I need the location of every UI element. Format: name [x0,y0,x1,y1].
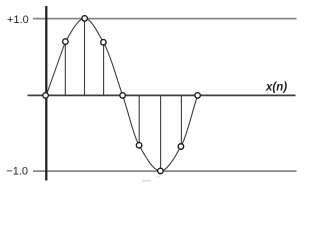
svg-text:−1.0: −1.0 [6,166,28,178]
stem sample n=5 [138,95,140,145]
+1.0 reference line [33,18,297,20]
svg-text:x(n): x(n) [265,82,287,94]
sample point circle n=5 [136,143,142,149]
sample point circle n=6 (trough -1) [158,168,164,174]
sample point circle n=2 (peak +1) [82,16,88,22]
sine envelope curve [46,18,197,171]
sample point circle n=7 [178,144,184,150]
stem sample n=7 [180,95,182,146]
sample point circle n=3 [101,40,107,46]
sample point circle n=0 (zero) [43,93,49,99]
sample point circle n=1 [63,39,69,45]
stem sample n=2 [84,18,86,95]
svg-text:+1.0: +1.0 [7,14,29,26]
sample point circle n=8 (zero) [195,93,201,99]
sample point circle n=4 (zero) [120,93,126,99]
stem sample n=6 [160,95,162,170]
stem sample n=1 [64,42,66,96]
horizontal axis x(n), zero line [28,94,296,96]
vertical axis [45,6,47,181]
stem sample n=3 [103,42,105,95]
-1.0 reference line [33,170,297,172]
faint clipped caption remnant at bottom [142,176,160,183]
